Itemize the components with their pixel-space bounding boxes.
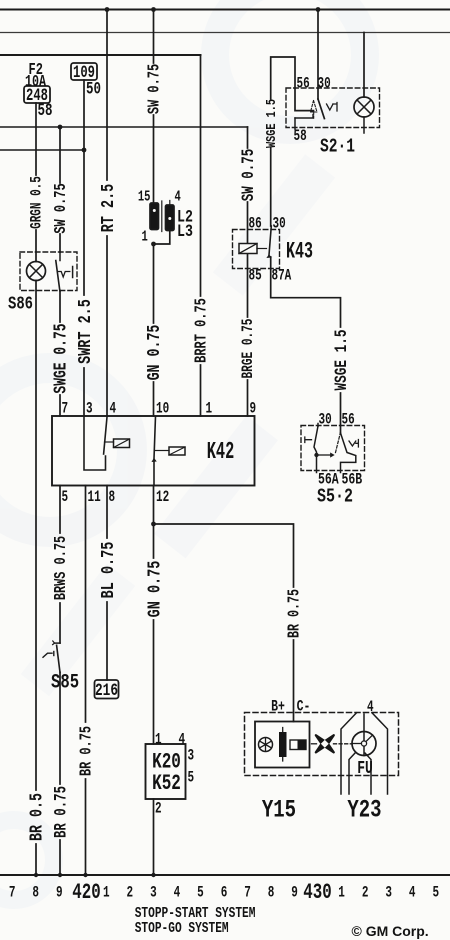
node pin12 branch (151, 522, 156, 527)
wire fuse 109 drop x84 (83, 80, 85, 150)
label GN 0.75 (K20) (143, 561, 165, 618)
svg-text:87A: 87A (272, 268, 293, 285)
svg-text:7: 7 (62, 401, 69, 418)
label BRWS 0.75 (52, 536, 70, 600)
wire BL 0.75 K42 pin8 to connector 216 (106, 486, 108, 681)
svg-text:RT 2.5: RT 2.5 (97, 184, 119, 233)
svg-text:GN 0.75: GN 0.75 (144, 325, 165, 381)
svg-text:GN 0.75: GN 0.75 (143, 561, 165, 618)
svg-text:56: 56 (297, 76, 310, 93)
svg-text:BR 0.75: BR 0.75 (78, 726, 96, 776)
wire SW 0.75 x60 bus4 to S86 switch (59, 127, 61, 252)
svg-text:5: 5 (62, 489, 69, 506)
Y15 inner box (255, 722, 310, 768)
S86 dashed housing (20, 252, 77, 291)
label SW 0.75 (L2) (146, 64, 164, 114)
svg-text:1: 1 (103, 885, 110, 902)
S5.2 contact 30 (305, 424, 334, 473)
wire BR 0.75 K42 pin11 to ground bus (85, 486, 87, 876)
wire fuse F2/248 to S86 lamp, GRGN 0.5 (35, 103, 37, 875)
K43 dashed housing (233, 230, 280, 269)
bus line 2 (terminal 15) (0, 32, 450, 34)
svg-text:Y15: Y15 (262, 796, 296, 824)
K42 coil 1 (105, 439, 130, 448)
node bus30/S2.1 (316, 7, 321, 12)
Y15 valve slide (290, 740, 306, 750)
svg-text:3: 3 (150, 885, 157, 902)
node ground/K20 (151, 873, 155, 877)
K42 contact arm pin4 (104, 417, 107, 454)
label GN 0.75 (K42 pin10) (144, 325, 165, 381)
svg-text:STOP-GO SYSTEM: STOP-GO SYSTEM (135, 920, 229, 937)
Y23 fork brackets (341, 713, 388, 794)
label BR 0.5 (27, 793, 48, 841)
label SW 0.75 (S86) (52, 183, 70, 233)
Y15 motor symbol (259, 738, 273, 752)
svg-text:430: 430 (303, 880, 331, 905)
wire K20/K52 pin2 to ground bus (153, 799, 155, 875)
svg-text:BR 0.75: BR 0.75 (50, 786, 71, 838)
fuse box 109 (71, 63, 97, 80)
svg-text:SW 0.75: SW 0.75 (238, 149, 259, 201)
svg-text:1: 1 (155, 732, 162, 749)
svg-text:S5·2: S5·2 (317, 487, 353, 508)
svg-text:S2·1: S2·1 (320, 137, 355, 158)
svg-text:58: 58 (38, 100, 53, 121)
svg-text:9: 9 (56, 885, 63, 902)
bus line 3 (terminal 58, x0-200) (0, 54, 201, 56)
wire S2.1 terminal 30 drop x318 (317, 10, 319, 100)
S5.2 mech link dashed (336, 434, 341, 453)
connector box 216 (95, 680, 119, 699)
svg-text:2: 2 (155, 801, 162, 818)
svg-text:B+: B+ (271, 698, 285, 716)
svg-text:4: 4 (179, 732, 186, 749)
svg-text:30: 30 (319, 412, 332, 429)
label SWRT 2.5 (74, 299, 96, 364)
K42 contact arm pin10-12 (152, 417, 156, 486)
K42 relay box (52, 416, 255, 486)
Y23 idle actuator (352, 714, 376, 756)
svg-text:1: 1 (206, 401, 213, 418)
svg-text:8: 8 (109, 489, 116, 506)
svg-text:WSGE 1.5: WSGE 1.5 (263, 99, 279, 148)
label BRRT 0.75 (193, 298, 211, 363)
wire SW 0.75 bus4 corner to K43 pin86 (247, 127, 249, 244)
wire S2.1 lamp to bus 15 x364 (363, 33, 365, 98)
svg-text:4: 4 (409, 885, 416, 902)
svg-text:56: 56 (342, 412, 355, 429)
wire GN 0.75 L2/L3 to K42 pin10 (153, 244, 155, 416)
S5.2 contact 56-56B (341, 433, 359, 473)
S2.1 lamp (354, 97, 374, 133)
label SW 0.75 (K43) (238, 149, 259, 201)
Y15 dashed housing (245, 713, 399, 776)
label BR 0.75 (pin11) (78, 726, 96, 776)
svg-text:FU: FU (357, 758, 373, 779)
wire K43 pin87A to S5.2 pin56, WSGE 1.5 (271, 257, 341, 433)
svg-text:K43: K43 (286, 239, 313, 265)
label BR 0.75 (Y15) (286, 589, 304, 638)
wire BRRT 0.75 x200.5 bus3 corner to K42 pin1 (200, 55, 202, 416)
WATERMARK-SHAPES (0, 0, 365, 900)
svg-text:BRGE 0.75: BRGE 0.75 (240, 319, 257, 379)
svg-text:30: 30 (318, 76, 331, 93)
svg-text:SWGE 0.75: SWGE 0.75 (51, 323, 72, 393)
lamp connector L2 (150, 203, 159, 230)
svg-text:15: 15 (138, 188, 151, 205)
K20/K52 relay box (146, 744, 186, 799)
svg-text:5: 5 (188, 770, 195, 787)
wire BR 0.75 S85 to ground bus (59, 672, 61, 875)
svg-text:© GM Corp.: © GM Corp. (352, 923, 429, 939)
svg-text:4: 4 (367, 699, 374, 716)
svg-text:11: 11 (88, 489, 101, 506)
wire BRWS 0.75 K42 pin5 to S85 (59, 486, 61, 644)
svg-text:3: 3 (86, 401, 93, 418)
wire SWGE 0.75 S86 switch to K42 pin7 (59, 291, 61, 416)
svg-text:WSGE 1.5: WSGE 1.5 (331, 330, 352, 391)
svg-text:2: 2 (362, 885, 369, 902)
svg-text:8: 8 (268, 885, 275, 902)
S86 switch (56, 252, 73, 291)
JUNCTION-DOTS (34, 7, 321, 877)
svg-text:SW 0.75: SW 0.75 (52, 183, 70, 233)
bus line 4 (y127, to K43 feed corner) (0, 126, 248, 128)
wire SW 0.75 vertical x153.5 (to L2/L3) (153, 10, 155, 204)
node bus30/RT2.5 (105, 7, 110, 12)
svg-text:4: 4 (110, 401, 117, 418)
svg-text:2: 2 (126, 885, 133, 902)
svg-text:5: 5 (432, 885, 439, 902)
svg-text:9: 9 (291, 885, 298, 902)
svg-text:5: 5 (197, 885, 204, 902)
svg-text:GRGN 0.5: GRGN 0.5 (29, 176, 46, 229)
svg-text:1: 1 (338, 885, 345, 902)
wire SWRT 2.5 x84 to K42 pin3 (83, 150, 85, 416)
svg-text:S85: S85 (51, 672, 79, 694)
node ground/BR0.75b (83, 873, 87, 877)
svg-text:BRRT 0.75: BRRT 0.75 (193, 298, 211, 363)
svg-text:10: 10 (156, 401, 169, 418)
S2.1 switch contacts (295, 99, 337, 129)
K42 contact pin3 fixed (84, 416, 106, 470)
svg-text:BL 0.75: BL 0.75 (97, 542, 119, 599)
ground bus bottom (0, 874, 450, 876)
svg-text:3: 3 (188, 748, 195, 765)
svg-text:K42: K42 (207, 438, 235, 465)
label SWGE 0.75 (51, 323, 72, 393)
L2/L3 divider pin (162, 201, 170, 232)
svg-text:9: 9 (250, 401, 257, 418)
svg-text:L3: L3 (177, 221, 193, 241)
svg-text:7: 7 (244, 885, 251, 902)
svg-text:SW 0.75: SW 0.75 (146, 64, 164, 114)
bus line top (terminal 30) (0, 9, 450, 11)
K43 coil (239, 244, 267, 254)
fuse F2 box 248 (24, 86, 50, 103)
svg-text:4: 4 (174, 885, 181, 902)
svg-text:BR 0.75: BR 0.75 (286, 589, 304, 638)
S2.1 dashed housing (286, 88, 380, 128)
S85 switch (43, 641, 60, 672)
label BR 0.75 (S85) (50, 786, 71, 838)
S5.2 dashed housing (301, 426, 365, 471)
svg-text:12: 12 (156, 489, 169, 506)
label BRGE 0.75 (240, 319, 257, 379)
svg-text:BR 0.5: BR 0.5 (27, 793, 48, 841)
svg-text:SWRT 2.5: SWRT 2.5 (74, 299, 96, 364)
wire RT 2.5 vertical x107 (106, 10, 108, 417)
label WSGE 1.5 (S2.1) (263, 99, 279, 148)
svg-text:BRWS 0.75: BRWS 0.75 (52, 536, 70, 600)
bus line 5 (y150, to fuse 109 wire) (0, 149, 84, 151)
node bus30/SW0.75 (151, 7, 156, 12)
node L2-L3 join (151, 242, 156, 247)
K42 coil 2 (155, 447, 185, 455)
label BL 0.75 (97, 542, 119, 599)
node ground/BR0.75a (58, 873, 62, 877)
svg-text:S86: S86 (8, 294, 33, 314)
wire GN 0.75 branch to K20/K52 (153, 524, 155, 744)
svg-text:86: 86 (249, 216, 262, 233)
svg-text:216: 216 (95, 680, 118, 701)
wire WSGE 1.5 K43 pin30 up to S2.1 pin56 (271, 57, 314, 226)
S5.2 node dot (314, 453, 318, 457)
label GRGN 0.5 (29, 176, 46, 229)
svg-text:K52: K52 (152, 771, 181, 796)
svg-text:7: 7 (9, 885, 16, 902)
wire K42 pin12 down to branch node (153, 486, 155, 525)
svg-text:50: 50 (86, 78, 101, 99)
svg-text:58: 58 (294, 128, 307, 145)
label RT 2.5 (97, 184, 119, 233)
node ground/BR0.5 (34, 873, 38, 877)
svg-text:4: 4 (175, 188, 182, 205)
node bus4/SW0.75 (58, 125, 63, 130)
svg-text:3: 3 (385, 885, 392, 902)
mech link valve to Y23 (334, 743, 353, 745)
svg-text:30: 30 (273, 216, 286, 233)
K43 contact 30-87A (267, 226, 271, 258)
svg-text:1: 1 (142, 228, 149, 245)
lamp connector L3 (166, 205, 175, 231)
Y15 pump bar (279, 728, 287, 762)
wire branch to BR 0.75 Y15 (154, 524, 294, 722)
wire K43 pin85 BRGE 0.75 to K42 pin9 (247, 254, 249, 417)
label WSGE 1.5 (S5.2) (331, 330, 352, 391)
svg-text:6: 6 (221, 885, 228, 902)
node bus5/SWRT (82, 148, 87, 153)
svg-text:420: 420 (72, 880, 100, 905)
svg-text:85: 85 (249, 268, 262, 285)
valve actuator star (312, 735, 334, 752)
svg-text:8: 8 (32, 885, 39, 902)
svg-text:C-: C- (297, 698, 311, 716)
svg-text:Y23: Y23 (347, 796, 381, 824)
wire L3 bottom link (154, 231, 170, 245)
S86 lamp (27, 262, 46, 281)
